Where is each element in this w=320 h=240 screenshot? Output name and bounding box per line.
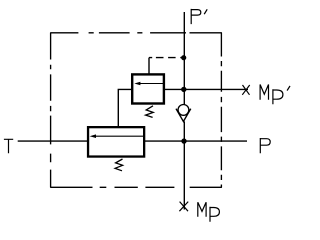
main valve V1 spring xyxy=(115,159,123,171)
enclosure boundary right edge (chain line) xyxy=(220,33,222,188)
plugged port x-mark at Mp' xyxy=(242,85,249,95)
label P (right lower port) xyxy=(260,138,270,153)
junction dot node at Mp' line / P' line xyxy=(181,87,186,92)
plugged port x-mark at Mp xyxy=(179,202,188,212)
junction dot node at pilot line / P' line xyxy=(181,55,186,60)
wire: pilot control line vertical segment (solid) xyxy=(148,58,150,74)
label Mp' (right upper port) xyxy=(260,85,290,105)
pilot valve U1 spring xyxy=(146,106,154,118)
wire: pilot control line horizontal segment (dashed) to P' node xyxy=(149,57,184,59)
label Mp (bottom port) xyxy=(198,202,220,222)
wire: T line into main valve xyxy=(18,140,88,142)
label P' (top port) xyxy=(191,9,207,24)
check valve CV1 seat xyxy=(176,109,191,122)
enclosure boundary left edge (chain line) xyxy=(50,33,52,188)
pilot valve U1 flow arrow (points left) xyxy=(134,82,163,86)
label T (left port) xyxy=(4,139,13,153)
junction dot node at P line / Mp line xyxy=(181,138,186,143)
main valve V1 flow arrow (points left) xyxy=(90,134,143,138)
enclosure boundary top edge (chain line) xyxy=(50,32,222,34)
enclosure boundary bottom edge (chain line) xyxy=(50,186,222,188)
pilot relief valve U1 body (upper box) xyxy=(132,74,164,103)
check valve CV1 ball xyxy=(178,105,189,116)
main relief valve V1 body (lower box) xyxy=(88,127,144,156)
wire: vertical line from check valve seat down to port Mp xyxy=(183,121,185,209)
wire: Mp' line from pilot valve to port Mp' xyxy=(165,88,249,90)
wire: P line from main valve to port P xyxy=(145,140,248,142)
wire: pilot valve left port to main valve top port xyxy=(118,89,131,126)
wire: P' vertical line from port P' down to check valve xyxy=(183,12,185,105)
